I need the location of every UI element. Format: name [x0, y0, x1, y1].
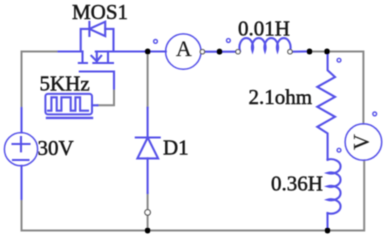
svg-text:2.1ohm: 2.1ohm	[249, 85, 313, 109]
svg-text:D1: D1	[163, 135, 189, 159]
svg-text:0.36H: 0.36H	[271, 172, 323, 196]
svg-text:30V: 30V	[38, 136, 74, 160]
svg-text:V: V	[348, 134, 373, 150]
svg-text:A: A	[176, 36, 192, 61]
svg-text:5KHz: 5KHz	[40, 71, 90, 95]
svg-text:MOS1: MOS1	[72, 0, 128, 24]
svg-text:0.01H: 0.01H	[238, 16, 290, 40]
